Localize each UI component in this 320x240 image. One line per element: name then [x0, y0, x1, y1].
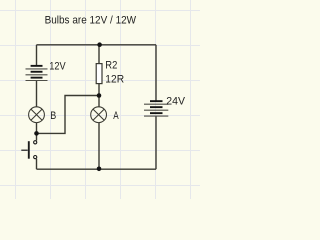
wire top node to resistor R2: [98, 45, 100, 64]
wire resistor R2 to node below: [98, 84, 100, 96]
bulb B: [29, 107, 45, 123]
junction node on top wire: [97, 42, 102, 47]
wire 24V battery to bottom rail: [155, 116, 157, 169]
wire node to bulb A: [98, 96, 100, 107]
battery B2 24V: [144, 100, 168, 116]
junction node below R2: [97, 93, 102, 98]
wire top horizontal: [37, 44, 157, 46]
wire right vertical (top to 24V battery): [155, 45, 157, 101]
svg-text:R2: R2: [105, 60, 117, 72]
svg-text:12R: 12R: [105, 74, 124, 86]
junction node below bulb B: [34, 131, 39, 136]
wire left vertical (top to 12V battery): [36, 45, 38, 66]
resistor R2: [96, 64, 102, 84]
svg-text:A: A: [113, 110, 119, 122]
svg-text:Bulbs are 12V / 12W: Bulbs are 12V / 12W: [45, 15, 137, 27]
wire bulb B to switch: [36, 123, 38, 141]
wire 12V battery to bulb B: [36, 81, 38, 107]
bulb A: [91, 107, 107, 123]
svg-text:24V: 24V: [166, 95, 185, 107]
junction node on bottom rail: [97, 167, 102, 172]
wire bottom rail: [37, 168, 157, 170]
wire bulb A to bottom rail: [98, 123, 100, 169]
wire branch node-to-bulb-B (horizontal + vertical + horizontal): [37, 96, 100, 134]
battery B1 12V: [26, 65, 48, 81]
switch SW1 (push-to-make): [21, 141, 37, 159]
wire switch to bottom rail: [36, 159, 38, 169]
svg-text:12V: 12V: [49, 61, 66, 73]
svg-text:B: B: [50, 110, 56, 122]
